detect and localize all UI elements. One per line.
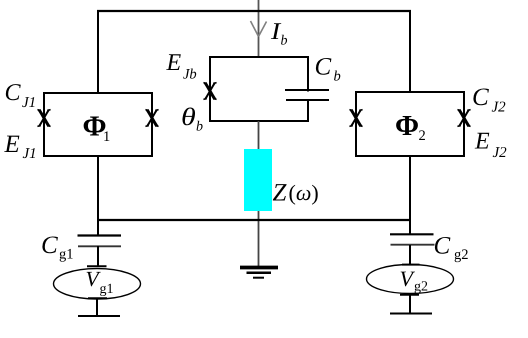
svg-text:C: C [315,54,332,81]
svg-text:(ω): (ω) [289,180,319,205]
svg-text:Jb: Jb [183,67,197,83]
svg-text:Z: Z [273,180,288,207]
svg-text:E: E [4,131,20,158]
svg-text:g1: g1 [59,247,74,263]
svg-text:C: C [472,84,489,111]
svg-text:Φ: Φ [395,110,419,142]
svg-text:g2: g2 [454,247,469,263]
svg-text:C: C [434,233,451,260]
svg-text:1: 1 [103,129,110,145]
svg-text:2: 2 [419,128,426,144]
svg-text:θ: θ [181,104,196,131]
svg-text:E: E [474,129,490,155]
svg-text:J2: J2 [492,100,507,116]
svg-text:b: b [196,120,203,135]
svg-text:J2: J2 [493,145,508,161]
svg-text:J1: J1 [23,146,37,162]
svg-text:C: C [41,232,58,259]
svg-text:C: C [5,80,22,106]
svg-text:E: E [166,50,182,76]
svg-text:b: b [334,69,341,85]
svg-text:J1: J1 [22,95,36,111]
svg-text:g2: g2 [414,280,428,295]
svg-text:b: b [281,34,288,49]
svg-text:g1: g1 [100,282,114,297]
